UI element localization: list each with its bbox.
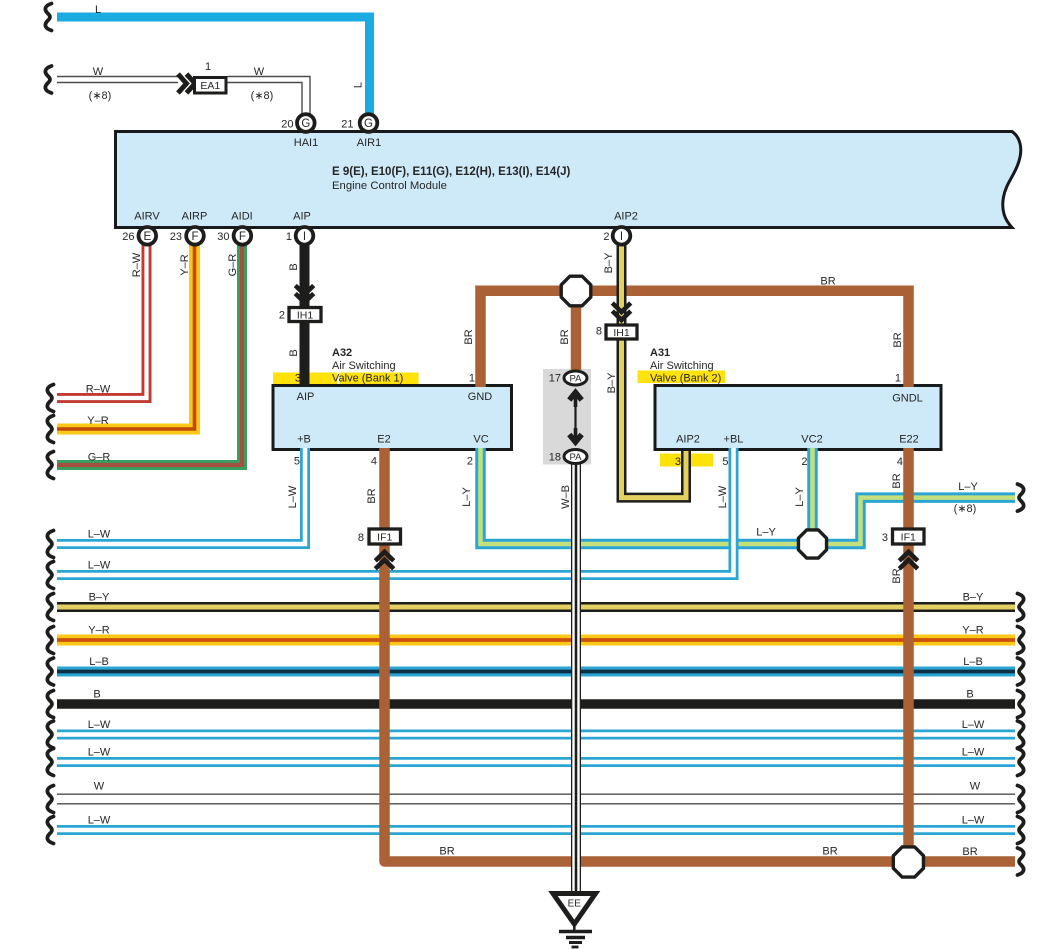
wire L-Y A31 VC2 drop bbox=[807, 448, 818, 544]
label VC2 A31 bbox=[801, 434, 822, 446]
label L-W bus5 left bbox=[88, 815, 111, 827]
label W left bbox=[93, 66, 104, 78]
junction node L-Y bbox=[798, 530, 826, 558]
label AIP bbox=[293, 211, 311, 223]
svg-text:L–B: L–B bbox=[89, 656, 109, 668]
svg-text:5: 5 bbox=[722, 456, 728, 468]
svg-text:G: G bbox=[301, 118, 310, 130]
pin 26 E AIRV bbox=[139, 227, 157, 245]
svg-text:AIP: AIP bbox=[293, 211, 311, 223]
label W right bbox=[254, 66, 265, 78]
label Y-R vert bbox=[179, 254, 191, 275]
break brace W bus right bbox=[1018, 786, 1024, 813]
label 2 AIP2 bbox=[603, 231, 609, 243]
svg-text:BR: BR bbox=[820, 276, 835, 288]
svg-text:VC: VC bbox=[473, 434, 488, 446]
arrow up to PA17 bbox=[569, 393, 581, 408]
wire B IH1 to A32 AIP bbox=[300, 322, 310, 387]
connector EA1 bbox=[195, 78, 227, 94]
svg-text:3: 3 bbox=[675, 456, 681, 468]
svg-text:AIRP: AIRP bbox=[182, 211, 208, 223]
bus wire L-B bbox=[57, 667, 1015, 677]
svg-text:5: 5 bbox=[294, 456, 300, 468]
svg-text:3: 3 bbox=[295, 373, 301, 385]
wire BR A32 E2 to IF1 bbox=[379, 448, 390, 528]
svg-text:L–W: L–W bbox=[88, 560, 111, 572]
label B vert lower bbox=[288, 349, 300, 356]
svg-text:G–R: G–R bbox=[88, 452, 111, 464]
svg-text:21: 21 bbox=[341, 119, 353, 131]
svg-text:BR: BR bbox=[822, 846, 837, 858]
pin 23 F AIRP bbox=[186, 227, 204, 245]
label GND A32 bbox=[468, 391, 493, 403]
label VC A32 bbox=[473, 434, 488, 446]
wire Y-R from AIRP bbox=[57, 245, 195, 430]
svg-text:G–R: G–R bbox=[227, 254, 239, 277]
label AIP2 A31 bbox=[676, 434, 700, 446]
junction connector PA shading bbox=[543, 369, 591, 465]
label A32 title bbox=[332, 347, 352, 359]
svg-text:Valve (Bank 2): Valve (Bank 2) bbox=[650, 373, 721, 385]
svg-text:L–W: L–W bbox=[287, 485, 299, 508]
svg-text:B–Y: B–Y bbox=[606, 372, 618, 393]
label AIDI bbox=[231, 211, 252, 223]
label B-Y bus right bbox=[963, 592, 984, 604]
label A31 line2 bbox=[650, 360, 714, 372]
svg-text:AIR1: AIR1 bbox=[357, 137, 381, 149]
label BR vert e22a bbox=[891, 473, 903, 488]
arrow down to PA18 bbox=[569, 428, 581, 442]
svg-text:AIP2: AIP2 bbox=[676, 434, 700, 446]
air switching valve bank2 A31 box bbox=[655, 386, 941, 450]
label L-W bus1 left bbox=[88, 529, 111, 541]
label BR vert e2 bbox=[366, 488, 378, 503]
connector PA pin17 oval bbox=[564, 371, 587, 385]
break brace L-W4 left bbox=[47, 749, 53, 776]
break brace L-W2 left bbox=[47, 562, 53, 589]
svg-text:B–Y: B–Y bbox=[89, 592, 110, 604]
break brace BR right bbox=[1018, 848, 1024, 875]
label (*8) left bbox=[89, 90, 112, 102]
svg-text:Air Switching: Air Switching bbox=[650, 360, 714, 372]
svg-text:B: B bbox=[93, 689, 100, 701]
break brace Y-R bbox=[47, 416, 53, 443]
svg-text:BR: BR bbox=[463, 329, 475, 344]
label B bus left bbox=[93, 689, 100, 701]
svg-text:R–W: R–W bbox=[131, 252, 143, 277]
label BR vert e22b bbox=[891, 568, 903, 583]
highlight Valve (Bank 1) label bbox=[340, 373, 419, 385]
label 3 IF1 bbox=[882, 532, 888, 544]
label 8 IH1 bbox=[596, 326, 602, 338]
label L-B bus right bbox=[963, 656, 983, 668]
wire L-Y A32 VC to right break bbox=[481, 448, 1016, 544]
svg-text:L–Y: L–Y bbox=[756, 527, 776, 539]
svg-text:L–W: L–W bbox=[88, 747, 111, 759]
label AIP2 ecm bbox=[614, 211, 638, 223]
label +BL A31 bbox=[724, 434, 744, 446]
label BR vert gndl bbox=[892, 332, 904, 347]
label G-R vert bbox=[227, 254, 239, 277]
label L-W bus4 right bbox=[962, 747, 985, 759]
label L-W bus4 left bbox=[88, 747, 111, 759]
label Y-R bus left bbox=[88, 625, 109, 637]
svg-text:L–Y: L–Y bbox=[958, 481, 978, 493]
label AIR1 bbox=[357, 137, 381, 149]
label pin2 A31 bbox=[801, 456, 807, 468]
label L-W bus3 left bbox=[88, 719, 111, 731]
svg-text:E22: E22 bbox=[899, 434, 919, 446]
highlight A32 pin 3 bbox=[273, 373, 337, 385]
label 26 bbox=[122, 231, 134, 243]
bus wire L-W third bbox=[57, 730, 1015, 740]
break brace R-W bbox=[47, 385, 53, 412]
svg-text:B: B bbox=[288, 349, 300, 356]
label (*8) LY bbox=[954, 503, 977, 515]
label pin4 A31 bbox=[897, 456, 903, 468]
label W-B vert bbox=[560, 485, 572, 509]
svg-text:Y–R: Y–R bbox=[962, 625, 983, 637]
svg-text:26: 26 bbox=[122, 231, 134, 243]
svg-text:L–W: L–W bbox=[962, 747, 985, 759]
label 17 PA bbox=[549, 373, 561, 385]
wire BR IF1 to junction bbox=[903, 546, 914, 863]
label R-W vert bbox=[131, 252, 143, 277]
label L-W bus2 left bbox=[88, 560, 111, 572]
svg-text:E2: E2 bbox=[377, 434, 390, 446]
pin 20 G HAI1 bbox=[297, 114, 315, 132]
label W bus left bbox=[94, 781, 105, 793]
label pin4 A32 bbox=[371, 456, 377, 468]
label R-W wire bbox=[86, 384, 111, 396]
break brace L-W4 right bbox=[1018, 749, 1024, 776]
break brace L-Y right bbox=[1018, 484, 1024, 511]
label A32 line3 bbox=[332, 373, 403, 385]
svg-text:L–B: L–B bbox=[963, 656, 983, 668]
wire BR drop to PA17 bbox=[571, 291, 582, 370]
pin 2 I AIP2 bbox=[613, 227, 631, 245]
break brace B-Y left bbox=[47, 594, 53, 621]
junction node BR top bbox=[561, 276, 591, 306]
svg-text:EA1: EA1 bbox=[200, 80, 220, 92]
svg-text:+BL: +BL bbox=[724, 434, 744, 446]
label 21 bbox=[341, 119, 353, 131]
bus wire W bbox=[57, 794, 1015, 804]
svg-text:IF1: IF1 bbox=[901, 531, 916, 543]
arrow into IF1 pin3 bbox=[899, 552, 917, 569]
svg-text:IH1: IH1 bbox=[613, 327, 630, 339]
svg-text:W: W bbox=[970, 781, 981, 793]
svg-text:1: 1 bbox=[895, 373, 901, 385]
svg-text:(∗8): (∗8) bbox=[954, 503, 977, 515]
svg-text:L–W: L–W bbox=[962, 719, 985, 731]
break brace B-Y right bbox=[1018, 594, 1024, 621]
svg-text:R–W: R–W bbox=[86, 384, 111, 396]
wire W-B PA18 to ground EE bbox=[571, 464, 581, 892]
wire W left segment bbox=[57, 77, 178, 83]
label L-B bus left bbox=[89, 656, 109, 668]
svg-text:GND: GND bbox=[468, 391, 493, 403]
wire W right segment bbox=[228, 77, 311, 114]
svg-text:W: W bbox=[94, 781, 105, 793]
svg-text:BR: BR bbox=[366, 488, 378, 503]
label AIP A32 bbox=[297, 391, 315, 403]
bus wire B-Y bbox=[57, 602, 1015, 612]
label Y-R bus right bbox=[962, 625, 983, 637]
label 1 AIP bbox=[286, 231, 292, 243]
svg-text:L: L bbox=[95, 4, 101, 16]
label pin3 A32 bbox=[295, 373, 301, 385]
label L vert bbox=[353, 82, 365, 88]
bus wire L-W fourth bbox=[57, 757, 1015, 767]
wire B-Y AIP2 to IH1 bbox=[617, 245, 627, 325]
svg-text:BR: BR bbox=[439, 846, 454, 858]
svg-text:BR: BR bbox=[892, 332, 904, 347]
svg-text:A32: A32 bbox=[332, 347, 352, 359]
svg-text:A31: A31 bbox=[650, 347, 670, 359]
svg-text:(∗8): (∗8) bbox=[251, 90, 274, 102]
label L-Y vert VC bbox=[461, 487, 473, 507]
svg-text:I: I bbox=[620, 231, 623, 243]
svg-text:(∗8): (∗8) bbox=[89, 90, 112, 102]
arrow into EA1 bbox=[178, 74, 195, 93]
break brace L-W1 left bbox=[47, 531, 53, 558]
svg-text:2: 2 bbox=[801, 456, 807, 468]
svg-text:L–W: L–W bbox=[88, 719, 111, 731]
svg-text:B–Y: B–Y bbox=[603, 252, 615, 273]
label +B A32 bbox=[297, 434, 311, 446]
highlight Valve (Bank 2) label bbox=[638, 371, 726, 384]
label L-Y right bbox=[958, 481, 978, 493]
wire L-W A32 +B to left break bbox=[57, 448, 305, 544]
svg-text:BR: BR bbox=[891, 568, 903, 583]
label pin5 A32 bbox=[294, 456, 300, 468]
svg-text:PA: PA bbox=[570, 452, 583, 463]
connector IF1 pin3 bbox=[893, 529, 925, 544]
label GNDL A31 bbox=[892, 393, 923, 405]
svg-text:F: F bbox=[239, 231, 246, 243]
svg-text:AIRV: AIRV bbox=[134, 211, 160, 223]
svg-text:Air Switching: Air Switching bbox=[332, 360, 396, 372]
svg-text:B: B bbox=[288, 263, 300, 270]
svg-text:L: L bbox=[353, 82, 365, 88]
label pin1 A31 bbox=[895, 373, 901, 385]
wire link PA17-PA18 bbox=[574, 400, 576, 445]
pin 1 I AIP bbox=[296, 227, 314, 245]
svg-text:30: 30 bbox=[217, 231, 229, 243]
pin 30 F AIDI bbox=[234, 227, 252, 245]
bus wire L-W fifth bbox=[57, 825, 1015, 835]
svg-text:VC2: VC2 bbox=[801, 434, 822, 446]
label L-Y mid bbox=[756, 527, 776, 539]
break brace L-W5 right bbox=[1018, 817, 1024, 844]
wire L-W A31 +BL to left break bbox=[57, 448, 734, 575]
svg-text:BR: BR bbox=[891, 473, 903, 488]
label pin2 A32 bbox=[467, 456, 473, 468]
label B-Y vert upper bbox=[603, 252, 615, 273]
label AIRV bbox=[134, 211, 160, 223]
label ECM subtitle bbox=[332, 180, 447, 192]
svg-text:8: 8 bbox=[358, 532, 364, 544]
label 18 PA bbox=[549, 452, 561, 464]
svg-text:BR: BR bbox=[962, 846, 977, 858]
label L-W bus5 right bbox=[962, 815, 985, 827]
svg-text:L–W: L–W bbox=[717, 485, 729, 508]
label pin3 A31 bbox=[675, 456, 681, 468]
label A32 line2 bbox=[332, 360, 396, 372]
wire R-W from AIRV bbox=[57, 245, 147, 399]
highlight A31 pin 3 bbox=[660, 454, 713, 467]
break brace Y-R bus right bbox=[1018, 627, 1024, 654]
label pin1 A32 bbox=[469, 373, 475, 385]
label 20 bbox=[281, 119, 293, 131]
label L-W vert +B bbox=[287, 485, 299, 508]
arrow into IH1 pin8 bbox=[612, 303, 630, 320]
svg-text:W: W bbox=[93, 66, 104, 78]
label (*8) right bbox=[251, 90, 274, 102]
svg-text:20: 20 bbox=[281, 119, 293, 131]
ground symbol bbox=[559, 924, 592, 947]
svg-text:+B: +B bbox=[297, 434, 311, 446]
junction node BR bottom bbox=[893, 847, 923, 877]
break brace L-B left bbox=[47, 658, 53, 685]
pin 21 G AIR1 bbox=[360, 114, 378, 132]
svg-text:EE: EE bbox=[568, 899, 582, 910]
label L-Y vert VC2 bbox=[794, 487, 806, 507]
bus wire Y-R bbox=[57, 635, 1015, 646]
svg-text:W: W bbox=[254, 66, 265, 78]
label G-R wire bbox=[88, 452, 111, 464]
label 23 bbox=[170, 231, 182, 243]
svg-text:Y–R: Y–R bbox=[179, 254, 191, 275]
label L top bbox=[95, 4, 101, 16]
label HAI1 bbox=[294, 137, 318, 149]
label BR bottom mid bbox=[822, 846, 837, 858]
break brace L-W3 right bbox=[1018, 721, 1024, 748]
svg-text:E 9(E), E10(F), E11(G), E12(H): E 9(E), E10(F), E11(G), E12(H), E13(I), … bbox=[332, 166, 571, 178]
break brace W bbox=[45, 66, 51, 93]
svg-text:AIP2: AIP2 bbox=[614, 211, 638, 223]
label L-W bus3 right bbox=[962, 719, 985, 731]
svg-text:1: 1 bbox=[469, 373, 475, 385]
svg-text:1: 1 bbox=[205, 61, 211, 73]
engine control module E9-E14 box bbox=[116, 132, 1021, 228]
svg-text:B–Y: B–Y bbox=[963, 592, 984, 604]
label BR vert gnd bbox=[463, 329, 475, 344]
label 30 bbox=[217, 231, 229, 243]
svg-text:IH1: IH1 bbox=[297, 309, 314, 321]
label A31 line3 bbox=[650, 373, 721, 385]
svg-text:L–Y: L–Y bbox=[794, 487, 806, 507]
svg-text:I: I bbox=[303, 231, 306, 243]
label B-Y vert mid bbox=[606, 372, 618, 393]
svg-text:G: G bbox=[364, 118, 373, 130]
label AIRP bbox=[182, 211, 208, 223]
bus wire B bbox=[57, 699, 1015, 709]
svg-text:AIDI: AIDI bbox=[231, 211, 252, 223]
svg-text:Valve (Bank 1): Valve (Bank 1) bbox=[332, 373, 403, 385]
break brace Y-R bus left bbox=[47, 627, 53, 654]
label W bus right bbox=[970, 781, 981, 793]
svg-text:L–W: L–W bbox=[88, 529, 111, 541]
connector IH1 pin2 bbox=[289, 308, 321, 322]
svg-text:8: 8 bbox=[596, 326, 602, 338]
svg-text:B: B bbox=[966, 689, 973, 701]
svg-text:4: 4 bbox=[897, 456, 903, 468]
svg-text:GNDL: GNDL bbox=[892, 393, 923, 405]
svg-text:L–Y: L–Y bbox=[461, 487, 473, 507]
svg-text:18: 18 bbox=[549, 452, 561, 464]
break brace B right bbox=[1018, 691, 1024, 718]
svg-text:AIP: AIP bbox=[297, 391, 315, 403]
wire G-R from AIDI bbox=[57, 245, 242, 466]
label E2 A32 bbox=[377, 434, 390, 446]
wire L from break to AIR1 bbox=[57, 17, 370, 114]
connector IH1 pin8 bbox=[606, 325, 637, 339]
svg-text:Engine Control Module: Engine Control Module bbox=[332, 180, 447, 192]
connector PA pin18 oval bbox=[564, 450, 587, 464]
break brace B left bbox=[47, 691, 53, 718]
wire BR IF1 to bottom run bbox=[385, 546, 1016, 862]
wire BR A31 E22 to IF1 bbox=[903, 448, 914, 528]
svg-text:IF1: IF1 bbox=[377, 531, 392, 543]
label pin 1 EA1 bbox=[205, 61, 211, 73]
svg-text:4: 4 bbox=[371, 456, 377, 468]
label BR top run bbox=[820, 276, 835, 288]
arrow into IH1 pin2 bbox=[295, 286, 313, 303]
svg-text:L–W: L–W bbox=[88, 815, 111, 827]
break brace L-W3 left bbox=[47, 721, 53, 748]
svg-text:2: 2 bbox=[467, 456, 473, 468]
label pin5 A31 bbox=[722, 456, 728, 468]
label 8 IF1 bbox=[358, 532, 364, 544]
label 2 IH1 bbox=[279, 310, 285, 322]
label BR bus right bbox=[962, 846, 977, 858]
label B vert upper bbox=[288, 263, 300, 270]
break brace L bbox=[45, 4, 51, 31]
label BR vert pa bbox=[559, 329, 571, 344]
label B-Y bus left bbox=[89, 592, 110, 604]
label ECM title bbox=[332, 166, 571, 178]
svg-text:BR: BR bbox=[559, 329, 571, 344]
label L-W vert +BL bbox=[717, 485, 729, 508]
svg-text:2: 2 bbox=[279, 310, 285, 322]
svg-text:Y–R: Y–R bbox=[87, 415, 108, 427]
wire BR A32 GND to A31 GNDL bbox=[481, 291, 909, 387]
svg-text:L–W: L–W bbox=[962, 815, 985, 827]
svg-text:1: 1 bbox=[286, 231, 292, 243]
label E22 A31 bbox=[899, 434, 919, 446]
label A31 title bbox=[650, 347, 670, 359]
ground EE triangle bbox=[553, 894, 596, 925]
break brace W bus left bbox=[47, 786, 53, 813]
label Y-R wire bbox=[87, 415, 108, 427]
svg-text:E: E bbox=[143, 231, 151, 243]
svg-text:17: 17 bbox=[549, 373, 561, 385]
break brace G-R bbox=[47, 452, 53, 479]
wire B-Y IH1 to A31 AIP2 bbox=[622, 340, 687, 498]
break brace L-W5 left bbox=[47, 817, 53, 844]
connector IF1 pin8 bbox=[369, 529, 401, 544]
svg-text:HAI1: HAI1 bbox=[294, 137, 318, 149]
svg-text:3: 3 bbox=[882, 532, 888, 544]
break brace L-B right bbox=[1018, 658, 1024, 685]
label B bus right bbox=[966, 689, 973, 701]
svg-text:PA: PA bbox=[570, 374, 583, 385]
svg-text:2: 2 bbox=[603, 231, 609, 243]
air switching valve bank1 A32 box bbox=[273, 386, 512, 450]
label BR bottom left bbox=[439, 846, 454, 858]
